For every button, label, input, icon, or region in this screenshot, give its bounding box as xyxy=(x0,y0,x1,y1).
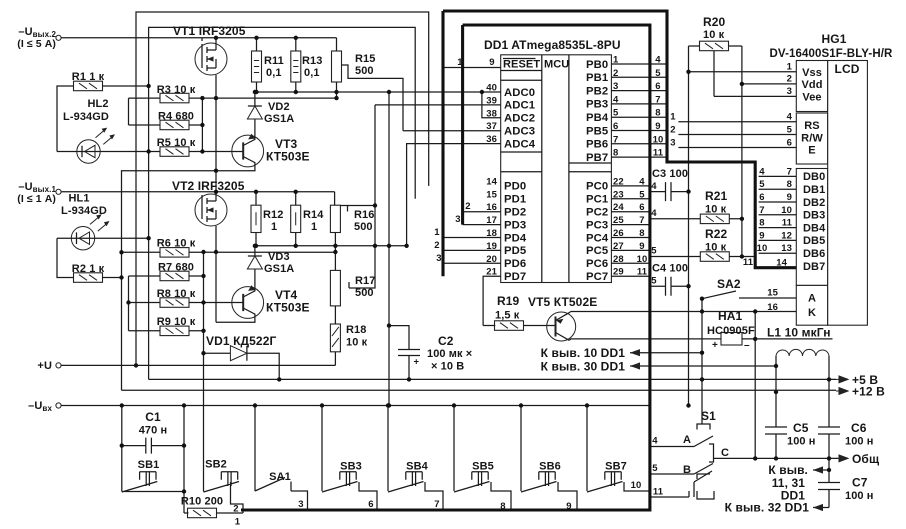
svg-text:1: 1 xyxy=(271,221,277,233)
svg-text:+U: +U xyxy=(37,360,52,372)
svg-text:B: B xyxy=(683,464,691,476)
svg-text:0,1: 0,1 xyxy=(266,67,282,79)
svg-text:SB4: SB4 xyxy=(406,461,428,473)
svg-text:R6 10 к: R6 10 к xyxy=(157,238,196,250)
svg-text:C4 100: C4 100 xyxy=(652,263,688,275)
svg-text:3: 3 xyxy=(298,499,303,510)
svg-text:15: 15 xyxy=(486,189,497,200)
svg-text:DB2: DB2 xyxy=(803,197,825,209)
svg-text:+12 В: +12 В xyxy=(852,385,885,399)
svg-text:R3 10 к: R3 10 к xyxy=(157,84,196,96)
svg-text:Общ: Общ xyxy=(852,452,880,466)
svg-text:DB6: DB6 xyxy=(803,248,825,260)
svg-text:RS: RS xyxy=(804,120,819,132)
svg-text:9: 9 xyxy=(639,241,644,252)
svg-text:4: 4 xyxy=(613,94,619,105)
svg-text:5: 5 xyxy=(651,246,657,257)
svg-text:4: 4 xyxy=(759,166,765,177)
svg-text:(I ≤ 1 А): (I ≤ 1 А) xyxy=(17,193,56,205)
svg-text:10: 10 xyxy=(637,254,648,265)
svg-text:R15: R15 xyxy=(355,53,375,65)
svg-text:16: 16 xyxy=(767,302,778,313)
svg-text:R21: R21 xyxy=(705,189,728,203)
svg-text:8: 8 xyxy=(655,108,660,119)
svg-text:1: 1 xyxy=(787,62,793,73)
svg-text:R9 10 к: R9 10 к xyxy=(157,316,196,328)
svg-text:SB5: SB5 xyxy=(472,461,494,473)
svg-text:A: A xyxy=(683,434,691,446)
svg-text:13: 13 xyxy=(781,243,792,254)
svg-text:VT1 IRF3205: VT1 IRF3205 xyxy=(173,24,246,38)
svg-text:VT5 КТ502Е: VT5 КТ502Е xyxy=(528,295,597,309)
svg-text:MCU: MCU xyxy=(544,59,569,71)
svg-text:E: E xyxy=(808,145,815,157)
svg-text:SB6: SB6 xyxy=(539,461,561,473)
svg-text:ADC0: ADC0 xyxy=(504,87,535,99)
svg-text:15: 15 xyxy=(767,288,778,299)
svg-text:R22: R22 xyxy=(705,227,728,241)
svg-text:К выв.: К выв. xyxy=(768,463,808,477)
svg-text:HG1: HG1 xyxy=(822,32,847,46)
svg-text:7: 7 xyxy=(787,166,792,177)
svg-text:КТ503Е: КТ503Е xyxy=(266,301,310,315)
svg-text:R19: R19 xyxy=(497,294,520,308)
svg-text:C: C xyxy=(721,447,729,459)
svg-text:6: 6 xyxy=(655,81,660,92)
svg-text:7: 7 xyxy=(639,215,644,226)
svg-text:6: 6 xyxy=(613,121,618,132)
svg-text:5: 5 xyxy=(759,179,765,190)
svg-text:9: 9 xyxy=(566,501,571,512)
svg-text:37: 37 xyxy=(486,121,497,132)
svg-text:8: 8 xyxy=(787,179,792,190)
svg-text:HC0905F: HC0905F xyxy=(707,325,755,337)
svg-text:× 10 В: × 10 В xyxy=(431,361,464,373)
svg-text:Vss: Vss xyxy=(802,67,822,79)
svg-text:LCD: LCD xyxy=(835,62,860,76)
svg-text:PB0: PB0 xyxy=(586,59,608,71)
svg-text:C2: C2 xyxy=(438,334,454,348)
svg-text:R2 1 к: R2 1 к xyxy=(72,263,105,275)
svg-text:5: 5 xyxy=(613,108,619,119)
svg-text:SB7: SB7 xyxy=(605,461,627,473)
svg-text:1: 1 xyxy=(613,55,619,66)
svg-text:3: 3 xyxy=(670,138,675,149)
svg-text:PB2: PB2 xyxy=(586,85,608,97)
svg-text:SA2: SA2 xyxy=(717,277,741,291)
svg-text:17: 17 xyxy=(486,215,497,226)
svg-text:PD5: PD5 xyxy=(504,245,526,257)
svg-text:C6: C6 xyxy=(851,421,867,435)
svg-text:DB5: DB5 xyxy=(803,235,825,247)
svg-text:R4 680: R4 680 xyxy=(158,111,194,123)
svg-text:14: 14 xyxy=(486,176,497,187)
svg-text:PB7: PB7 xyxy=(586,152,608,164)
svg-text:R20: R20 xyxy=(703,15,726,29)
svg-text:6: 6 xyxy=(787,138,792,149)
svg-text:23: 23 xyxy=(613,189,624,200)
svg-text:0,1: 0,1 xyxy=(304,67,320,79)
svg-text:11: 11 xyxy=(782,218,793,229)
svg-text:16: 16 xyxy=(486,202,497,213)
svg-text:R11: R11 xyxy=(264,55,284,67)
svg-text:Vdd: Vdd xyxy=(801,79,822,91)
svg-text:R14: R14 xyxy=(303,209,324,221)
svg-text:470 н: 470 н xyxy=(139,425,168,437)
svg-text:20: 20 xyxy=(486,254,497,265)
svg-text:8: 8 xyxy=(759,218,764,229)
svg-text:29: 29 xyxy=(613,267,624,278)
svg-text:11: 11 xyxy=(743,257,754,268)
svg-text:14: 14 xyxy=(776,258,787,269)
svg-text:A: A xyxy=(808,293,816,305)
svg-text:4: 4 xyxy=(639,176,645,187)
svg-text:PB1: PB1 xyxy=(586,72,608,84)
svg-text:10: 10 xyxy=(757,243,768,254)
svg-text:R18: R18 xyxy=(346,324,366,336)
svg-text:1,5 к: 1,5 к xyxy=(495,310,520,322)
svg-text:100 н: 100 н xyxy=(845,490,874,502)
svg-text:PD6: PD6 xyxy=(504,258,526,270)
svg-text:8: 8 xyxy=(500,501,505,512)
svg-text:10: 10 xyxy=(631,480,642,491)
svg-text:500: 500 xyxy=(354,221,373,233)
svg-text:L-934GD: L-934GD xyxy=(61,205,107,217)
svg-text:4: 4 xyxy=(651,181,657,192)
svg-text:PC3: PC3 xyxy=(586,219,608,231)
svg-text:ADC4: ADC4 xyxy=(504,138,536,150)
svg-text:R/W: R/W xyxy=(801,133,823,145)
svg-text:2: 2 xyxy=(233,504,238,515)
svg-text:PD4: PD4 xyxy=(504,232,527,244)
svg-text:К выв. 32 DD1: К выв. 32 DD1 xyxy=(725,501,810,515)
svg-text:10 к: 10 к xyxy=(346,337,368,349)
svg-text:3: 3 xyxy=(787,86,792,97)
svg-text:26: 26 xyxy=(613,228,624,239)
svg-text:VD3: VD3 xyxy=(268,251,290,263)
svg-text:38: 38 xyxy=(486,108,497,119)
svg-text:100 н: 100 н xyxy=(787,436,816,448)
svg-text:SB2: SB2 xyxy=(205,459,227,471)
svg-text:R1 1 к: R1 1 к xyxy=(72,71,105,83)
svg-text:DB0: DB0 xyxy=(803,171,825,183)
svg-text:VD2: VD2 xyxy=(268,101,290,113)
svg-text:C3 100: C3 100 xyxy=(652,168,688,180)
svg-text:R12: R12 xyxy=(263,209,283,221)
svg-text:11: 11 xyxy=(653,487,664,498)
svg-text:ADC2: ADC2 xyxy=(504,113,535,125)
svg-text:DB7: DB7 xyxy=(803,261,825,273)
svg-text:ADC3: ADC3 xyxy=(504,126,535,138)
svg-text:6: 6 xyxy=(759,192,764,203)
svg-text:100 н: 100 н xyxy=(845,436,874,448)
svg-text:9: 9 xyxy=(489,57,494,68)
svg-text:C7: C7 xyxy=(852,476,868,490)
svg-text:GS1A: GS1A xyxy=(264,113,294,125)
svg-text:9: 9 xyxy=(655,121,660,132)
svg-text:40: 40 xyxy=(486,83,497,94)
svg-text:24: 24 xyxy=(613,202,624,213)
svg-text:10 к: 10 к xyxy=(705,242,727,254)
svg-text:10: 10 xyxy=(781,205,792,216)
svg-text:21: 21 xyxy=(486,267,497,278)
svg-text:10 к: 10 к xyxy=(703,29,725,41)
svg-text:12: 12 xyxy=(781,230,792,241)
svg-text:PB4: PB4 xyxy=(586,112,609,124)
svg-text:R13: R13 xyxy=(302,55,322,67)
svg-text:2: 2 xyxy=(670,125,675,136)
svg-text:L-934GD: L-934GD xyxy=(63,111,109,123)
svg-text:3: 3 xyxy=(613,81,618,92)
svg-text:22: 22 xyxy=(613,176,624,187)
svg-text:PB3: PB3 xyxy=(586,99,608,111)
svg-text:PD2: PD2 xyxy=(504,207,526,219)
svg-text:+: + xyxy=(414,357,420,368)
svg-text:7: 7 xyxy=(434,499,439,510)
svg-text:2: 2 xyxy=(613,68,618,79)
svg-text:8: 8 xyxy=(639,228,644,239)
svg-text:4: 4 xyxy=(651,208,657,219)
svg-text:R16: R16 xyxy=(354,209,374,221)
svg-text:7: 7 xyxy=(759,205,764,216)
svg-text:2: 2 xyxy=(434,240,439,251)
svg-text:3: 3 xyxy=(455,214,460,225)
svg-text:C5: C5 xyxy=(793,421,809,435)
svg-text:SB1: SB1 xyxy=(138,459,160,471)
svg-text:7: 7 xyxy=(613,134,618,145)
svg-text:2: 2 xyxy=(465,201,470,212)
svg-text:DB4: DB4 xyxy=(803,222,826,234)
svg-text:11: 11 xyxy=(637,267,648,278)
svg-text:6: 6 xyxy=(639,202,644,213)
svg-text:PC5: PC5 xyxy=(586,245,608,257)
svg-text:3: 3 xyxy=(436,253,441,264)
svg-text:PC6: PC6 xyxy=(586,258,608,270)
svg-text:(I ≤ 5 А): (I ≤ 5 А) xyxy=(17,38,56,50)
svg-text:PC2: PC2 xyxy=(586,207,608,219)
svg-text:27: 27 xyxy=(613,241,624,252)
svg-text:R8 10 к: R8 10 к xyxy=(157,288,196,300)
svg-text:4: 4 xyxy=(787,112,793,123)
svg-text:1: 1 xyxy=(235,517,241,528)
svg-text:28: 28 xyxy=(613,254,624,265)
svg-text:100 мк ×: 100 мк × xyxy=(427,348,472,360)
svg-text:4: 4 xyxy=(652,436,658,447)
svg-text:10: 10 xyxy=(653,134,664,145)
svg-text:19: 19 xyxy=(486,241,497,252)
svg-text:L1 10 мкГн: L1 10 мкГн xyxy=(767,326,831,340)
svg-text:1: 1 xyxy=(434,227,440,238)
svg-text:PD7: PD7 xyxy=(504,271,526,283)
svg-text:1: 1 xyxy=(311,221,317,233)
svg-text:КТ503Е: КТ503Е xyxy=(266,150,310,164)
svg-text:К выв. 30 DD1: К выв. 30 DD1 xyxy=(541,360,626,374)
svg-text:1: 1 xyxy=(670,112,676,123)
svg-text:К выв. 10 DD1: К выв. 10 DD1 xyxy=(541,346,626,360)
svg-text:5: 5 xyxy=(787,125,793,136)
svg-text:VT2 IRF3205: VT2 IRF3205 xyxy=(172,179,245,193)
svg-text:18: 18 xyxy=(486,228,497,239)
svg-text:1: 1 xyxy=(457,57,463,68)
svg-text:5: 5 xyxy=(655,68,661,79)
svg-text:Vee: Vee xyxy=(802,92,821,104)
svg-text:9: 9 xyxy=(759,230,764,241)
svg-text:GS1A: GS1A xyxy=(264,263,294,275)
svg-text:DB1: DB1 xyxy=(803,184,825,196)
svg-text:SA1: SA1 xyxy=(269,471,291,483)
svg-text:K: K xyxy=(808,307,816,319)
svg-text:R7 680: R7 680 xyxy=(158,262,194,274)
svg-text:10 к: 10 к xyxy=(705,204,727,216)
svg-text:25: 25 xyxy=(613,215,624,226)
svg-text:ADC1: ADC1 xyxy=(504,100,535,112)
svg-text:PB5: PB5 xyxy=(586,125,608,137)
svg-text:SB3: SB3 xyxy=(340,461,362,473)
svg-text:R17: R17 xyxy=(355,275,375,287)
svg-text:RESET: RESET xyxy=(503,59,540,71)
svg-text:PD0: PD0 xyxy=(504,181,526,193)
svg-text:DV-16400S1F-BLY-H/R: DV-16400S1F-BLY-H/R xyxy=(770,48,894,60)
svg-text:R5 10 к: R5 10 к xyxy=(157,137,196,149)
svg-text:11: 11 xyxy=(653,148,664,159)
svg-text:VD1 КД522Г: VD1 КД522Г xyxy=(206,334,276,348)
svg-text:S1: S1 xyxy=(701,409,716,423)
svg-text:5: 5 xyxy=(652,463,658,474)
svg-text:4: 4 xyxy=(655,55,661,66)
svg-text:PD3: PD3 xyxy=(504,219,526,231)
svg-text:R10 200: R10 200 xyxy=(181,496,223,508)
svg-text:PC4: PC4 xyxy=(586,232,609,244)
svg-text:+: + xyxy=(712,340,718,351)
svg-text:8: 8 xyxy=(613,148,618,159)
svg-text:PC0: PC0 xyxy=(586,181,608,193)
svg-text:39: 39 xyxy=(486,95,497,106)
svg-text:36: 36 xyxy=(486,134,497,145)
svg-text:HL2: HL2 xyxy=(87,98,108,110)
svg-text:C1: C1 xyxy=(145,410,161,424)
svg-text:7: 7 xyxy=(655,94,660,105)
svg-text:DD1 ATmega8535L-8PU: DD1 ATmega8535L-8PU xyxy=(484,38,621,52)
svg-text:PD1: PD1 xyxy=(504,194,526,206)
svg-text:НА1: НА1 xyxy=(718,309,743,323)
svg-text:PB6: PB6 xyxy=(586,139,608,151)
svg-text:PC7: PC7 xyxy=(586,271,608,283)
svg-text:HL1: HL1 xyxy=(68,193,89,205)
svg-text:2: 2 xyxy=(787,74,792,85)
svg-text:–: – xyxy=(744,340,750,351)
svg-text:6: 6 xyxy=(368,499,373,510)
svg-text:5: 5 xyxy=(639,189,645,200)
svg-text:DB3: DB3 xyxy=(803,210,825,222)
svg-text:PC1: PC1 xyxy=(586,194,608,206)
svg-text:5: 5 xyxy=(651,276,657,287)
svg-text:9: 9 xyxy=(787,192,792,203)
svg-text:500: 500 xyxy=(355,287,374,299)
svg-text:500: 500 xyxy=(355,65,374,77)
